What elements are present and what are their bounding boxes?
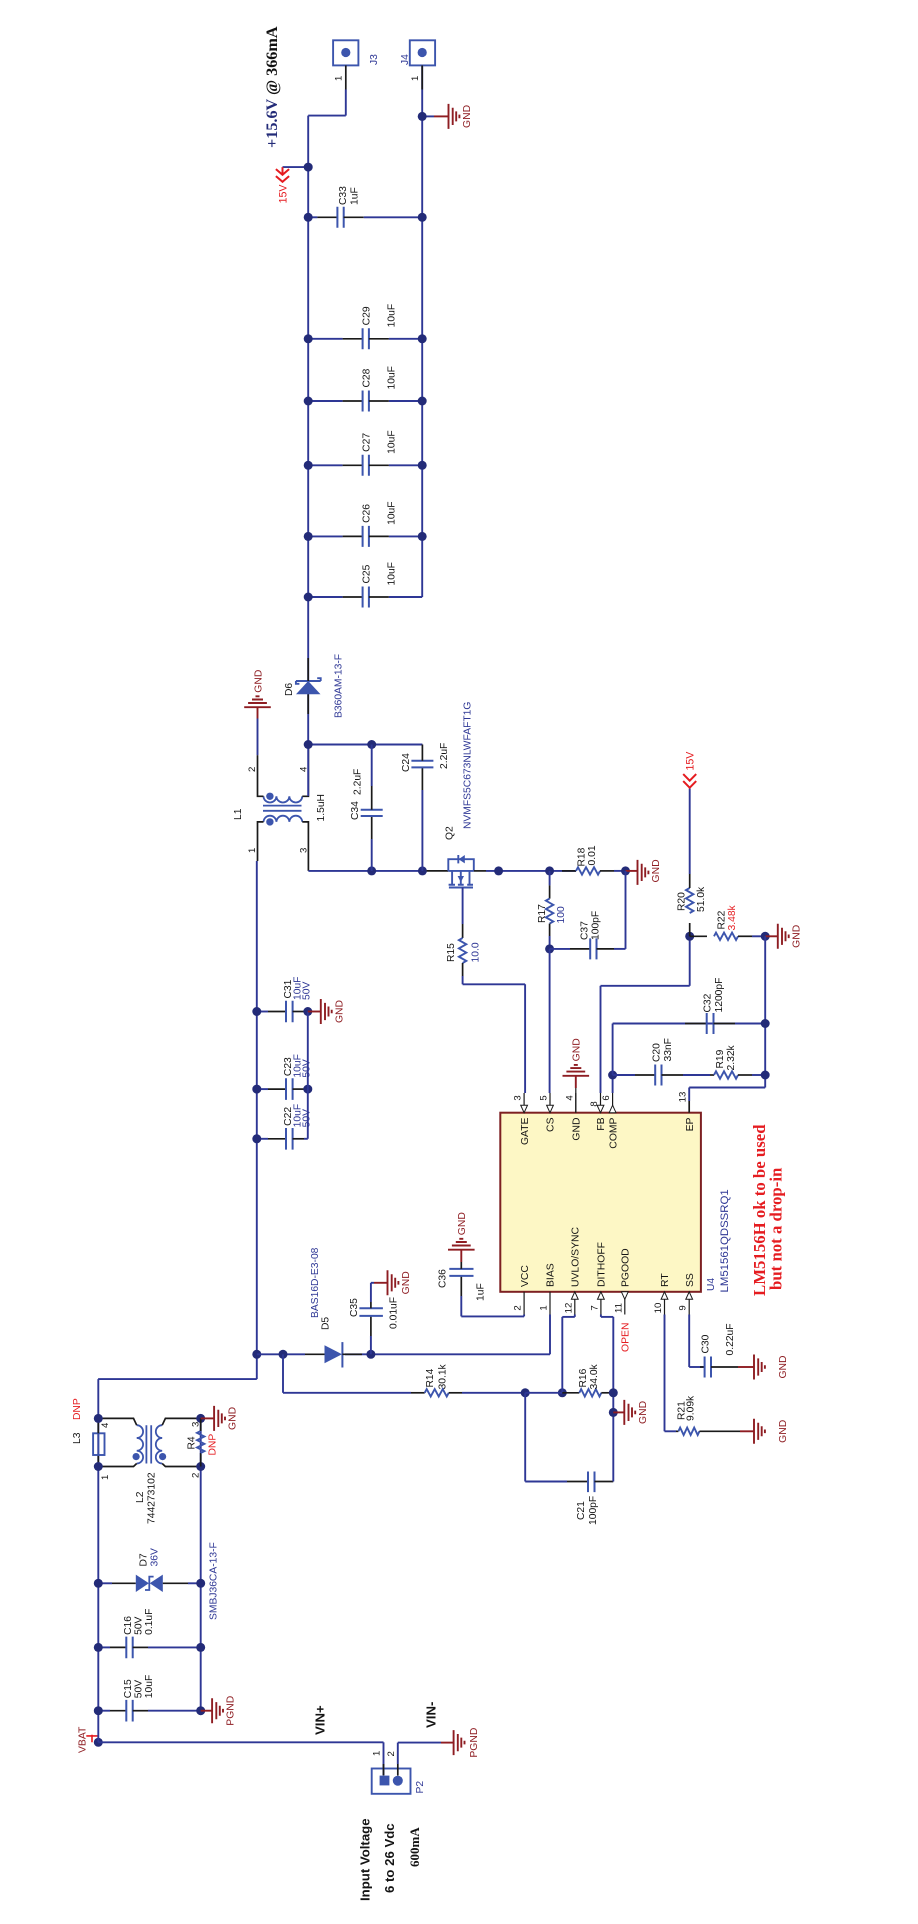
wire RT pin to R21	[664, 1315, 666, 1432]
wire UVLO pin	[561, 1317, 563, 1393]
junction dots C28	[304, 397, 313, 406]
ground symbol GND at C36 (sideways)	[448, 1212, 475, 1262]
resistor R18 0.01 (shunt, vertical)	[562, 867, 626, 874]
wire D5 top to VBAT	[257, 1353, 305, 1355]
svg-text:10uF: 10uF	[387, 562, 398, 585]
capacitor C26 (10uF output cap)	[308, 501, 422, 546]
svg-text:D7: D7	[139, 1553, 150, 1566]
svg-text:1: 1	[334, 76, 345, 81]
pin 9 SS (U4 left)	[678, 1273, 696, 1314]
svg-text:C36: C36	[438, 1269, 449, 1288]
node A junction dot (SW node on VOUT rail)	[304, 740, 313, 749]
pin 11 PGOOD (U4 left)	[613, 1248, 631, 1314]
svg-text:L2: L2	[135, 1491, 146, 1503]
svg-text:SS: SS	[685, 1273, 696, 1287]
svg-text:51.0k: 51.0k	[696, 886, 707, 912]
svg-text:GND: GND	[572, 1118, 583, 1141]
svg-text:EP: EP	[685, 1117, 696, 1131]
diode D7 SMBJ36CA-13-F (TVS, vertical)	[98, 1575, 200, 1592]
svg-text:1: 1	[372, 1751, 383, 1756]
svg-text:12: 12	[563, 1303, 574, 1314]
wire VBAT to R14 column	[282, 1354, 284, 1393]
svg-text:COMP: COMP	[608, 1117, 619, 1148]
svg-text:+15.6V @ 366mA: +15.6V @ 366mA	[263, 26, 281, 148]
svg-text:GATE: GATE	[520, 1117, 531, 1145]
wire SS pin to C30	[688, 1315, 690, 1368]
wire gate to IC GATE pin	[463, 983, 525, 985]
svg-text:GND: GND	[778, 1420, 789, 1443]
svg-text:744273102: 744273102	[147, 1472, 158, 1524]
svg-text:C21: C21	[576, 1501, 587, 1520]
pin 2 VCC (U4 left)	[513, 1265, 531, 1315]
svg-text:7: 7	[589, 1305, 600, 1310]
capacitor C32 1200pF (vertical, on x=900.5)	[685, 1013, 735, 1034]
resistor R17 100 (gate of CS filter, horizontal)	[546, 871, 553, 949]
svg-text:Q2: Q2	[445, 826, 456, 840]
svg-text:UVLO/SYNC: UVLO/SYNC	[571, 1226, 582, 1287]
svg-text:1: 1	[539, 1305, 550, 1310]
capacitor C27 (10uF output cap)	[308, 430, 422, 475]
svg-text:C32: C32	[703, 993, 714, 1012]
transistor Q2 NVMFS5C673NLWFAFT1G (N-MOSFET)	[427, 855, 486, 888]
svg-text:R20: R20	[677, 892, 688, 911]
ground symbol PGND at C15	[201, 1696, 237, 1726]
svg-text:R22: R22	[717, 910, 728, 929]
junction dot C24 left	[418, 866, 427, 875]
svg-text:50V: 50V	[134, 1680, 145, 1698]
svg-text:VIN+: VIN+	[313, 1705, 328, 1735]
svg-text:100pF: 100pF	[588, 1496, 599, 1525]
capacitor C21 100pF (parallel R16)	[525, 1393, 613, 1492]
junction dot R22 bottom	[761, 932, 770, 941]
resistor R16 34.0k (vertical)	[525, 1389, 613, 1396]
VOUT rail (+15.6V net)	[307, 116, 309, 796]
junction dots C33	[304, 213, 313, 222]
svg-text:R15: R15	[446, 943, 457, 962]
diode D5 BAS16D-E3-08 (vertical, pointing down)	[305, 1342, 362, 1367]
capacitor C37 100pF (vertical)	[550, 871, 626, 960]
svg-text:3.48k: 3.48k	[727, 904, 738, 930]
wire P2 pin 2 to PGND	[397, 1743, 399, 1764]
wire COMP/EP ground-side rail y=765	[764, 936, 766, 1087]
connector P2 (input)	[372, 1764, 411, 1794]
svg-text:2.2uF: 2.2uF	[439, 743, 450, 769]
connector J4 (output GND)	[410, 40, 435, 89]
svg-text:SMBJ36CA-13-F: SMBJ36CA-13-F	[209, 1542, 220, 1620]
junction dot C20/R19 rail	[761, 1071, 770, 1080]
svg-text:2.2uF: 2.2uF	[353, 769, 364, 795]
diode D6 B360AM-13-F (schottky, inline on VOUT rail)	[296, 658, 321, 714]
capacitor C25 (10uF output cap)	[308, 562, 422, 607]
svg-text:4: 4	[100, 1422, 111, 1428]
svg-text:10uF: 10uF	[387, 430, 398, 453]
svg-text:RT: RT	[660, 1273, 671, 1287]
ground symbol GND at L1 pin 2 (sideways)	[244, 670, 271, 719]
svg-text:C26: C26	[362, 504, 373, 523]
junction dots C25	[304, 593, 313, 602]
svg-text:D5: D5	[321, 1317, 332, 1330]
pin 5 CS (U4 right)	[539, 1093, 557, 1132]
svg-text:OPEN: OPEN	[621, 1323, 632, 1352]
svg-text:VCC: VCC	[520, 1265, 531, 1287]
svg-text:GND: GND	[778, 1355, 789, 1378]
capacitor C22 10uF 50V (input bypass)	[257, 1104, 313, 1150]
svg-text:GND: GND	[253, 670, 264, 693]
svg-text:10uF: 10uF	[387, 304, 398, 327]
svg-text:C34: C34	[350, 801, 361, 820]
svg-text:BIAS: BIAS	[546, 1263, 557, 1287]
wire CS node to IC pin 5	[549, 949, 551, 1093]
svg-text:1uF: 1uF	[476, 1283, 487, 1301]
svg-text:C27: C27	[362, 433, 373, 452]
op-amp U4 LM51561QDSSRQ1 controller (IC body)	[500, 1113, 701, 1292]
svg-text:PGND: PGND	[226, 1696, 237, 1726]
resistor R14 30.1k (vertical)	[411, 1389, 525, 1396]
svg-text:3: 3	[299, 848, 310, 853]
svg-text:R16: R16	[578, 1368, 589, 1387]
pin 7 DITHOFF (U4 left)	[589, 1242, 607, 1315]
svg-text:Input Voltage: Input Voltage	[358, 1818, 373, 1901]
wire R16 bottom rail / DITHOFF	[612, 1317, 614, 1413]
svg-text:C37: C37	[580, 921, 591, 940]
svg-text:1200pF: 1200pF	[714, 978, 725, 1013]
svg-text:PGND: PGND	[469, 1728, 480, 1758]
svg-text:R14: R14	[425, 1368, 436, 1387]
wire VBAT riser from filter	[98, 1378, 257, 1380]
svg-text:0.01: 0.01	[587, 845, 598, 865]
junction dot C37/CS node	[545, 944, 554, 953]
wire input bottom rail (PGND side)	[200, 1418, 202, 1710]
svg-text:J4: J4	[400, 54, 411, 65]
capacitor C23 10uF 50V (input bypass)	[257, 1054, 313, 1100]
svg-text:C29: C29	[362, 306, 373, 325]
wire L1 pin3 down to Q2 drain (x=1053.1)	[308, 870, 371, 872]
capacitor C28 (10uF output cap)	[308, 366, 422, 411]
svg-text:R19: R19	[715, 1049, 726, 1068]
inductor L1 coupled 1.5uH	[258, 745, 309, 871]
svg-text:P2: P2	[415, 1781, 426, 1794]
svg-text:36V: 36V	[150, 1548, 161, 1566]
svg-text:C24: C24	[401, 753, 412, 772]
svg-text:GND: GND	[401, 1271, 412, 1294]
ground symbol GND at L2 pin 3	[201, 1406, 239, 1431]
junction dots C16	[94, 1643, 103, 1652]
svg-text:10: 10	[653, 1303, 664, 1314]
junction dot C23 top	[252, 1085, 261, 1094]
svg-text:50V: 50V	[302, 982, 313, 1000]
svg-text:GND: GND	[334, 1000, 345, 1023]
junction dot C23 bottom	[303, 1085, 312, 1094]
svg-text:C20: C20	[652, 1043, 663, 1062]
ground symbol GND at R18	[626, 859, 663, 885]
svg-text:B360AM-13-F: B360AM-13-F	[334, 654, 345, 718]
junction dot R14 top branch	[279, 1350, 288, 1359]
svg-text:6: 6	[601, 1095, 612, 1100]
svg-text:11: 11	[613, 1303, 624, 1313]
junction dot R18 bottom / GND node	[621, 866, 630, 875]
svg-text:LM51561QDSSRQ1: LM51561QDSSRQ1	[719, 1189, 731, 1292]
svg-text:600mA: 600mA	[407, 1827, 422, 1867]
junction dots C27	[304, 461, 313, 470]
capacitor C29 (10uF output cap)	[308, 304, 422, 349]
junction dot GND tap (R16/C21)	[609, 1408, 618, 1417]
ground symbol GND at R21	[740, 1419, 789, 1444]
svg-text:C28: C28	[362, 368, 373, 387]
wire BIAS pin to D5 cathode	[549, 1315, 551, 1355]
wire node A down to C34/C24 (x=1179.5)	[308, 744, 422, 746]
wire local gnd interconnect (C22-C31)	[307, 1012, 309, 1139]
svg-text:15V: 15V	[278, 184, 290, 204]
svg-text:2: 2	[513, 1305, 524, 1310]
svg-text:CS: CS	[546, 1117, 557, 1132]
svg-text:10.0: 10.0	[471, 942, 482, 962]
svg-text:1.5uH: 1.5uH	[316, 794, 327, 821]
svg-text:34.0k: 34.0k	[589, 1363, 600, 1389]
junction dot C21 branch	[521, 1388, 530, 1397]
svg-text:GND: GND	[572, 1038, 583, 1061]
svg-text:FB: FB	[596, 1117, 607, 1130]
svg-text:10uF: 10uF	[387, 501, 398, 524]
pin 4 GND (U4 right)	[564, 1093, 582, 1141]
svg-text:6 to 26 Vdc: 6 to 26 Vdc	[382, 1823, 397, 1893]
pin 10 RT (U4 left)	[653, 1273, 671, 1315]
wire Q2 source down	[486, 870, 576, 872]
junction dot D5 anode (VBAT)	[252, 1350, 261, 1359]
svg-text:D6: D6	[284, 683, 295, 696]
svg-text:R17: R17	[537, 904, 548, 923]
svg-text:DNP: DNP	[208, 1434, 219, 1456]
svg-text:R18: R18	[577, 847, 588, 866]
resistor R4 DNP (across lower winding)	[197, 1418, 204, 1466]
junction dot source node 1	[494, 866, 503, 875]
junction dots C26	[304, 532, 313, 541]
svg-text:GND: GND	[638, 1401, 649, 1424]
capacitor C20 33nF (COMP series, vertical x=849)	[613, 1065, 710, 1086]
svg-text:L1: L1	[233, 808, 244, 820]
pin 1 BIAS (U4 left)	[539, 1263, 557, 1314]
resistor R15 10.0 (gate, horizontal)	[459, 888, 466, 985]
svg-text:2.32k: 2.32k	[726, 1044, 737, 1070]
junction dot C31 bottom	[303, 1007, 312, 1016]
svg-text:GND: GND	[651, 859, 662, 882]
svg-text:J3: J3	[369, 54, 380, 65]
svg-text:9: 9	[678, 1305, 689, 1310]
svg-text:10uF: 10uF	[144, 1675, 155, 1698]
svg-text:DITHOFF: DITHOFF	[597, 1242, 608, 1287]
svg-text:1: 1	[410, 76, 421, 81]
pin 6 COMP (U4 right)	[601, 1093, 619, 1149]
svg-text:C30: C30	[701, 1334, 712, 1353]
capacitor C16 (input)	[98, 1609, 200, 1659]
junction dot C35 tap	[366, 1350, 375, 1359]
svg-text:PGOOD: PGOOD	[621, 1248, 632, 1287]
capacitor C35 0.01uF (horizontal)	[359, 1283, 383, 1355]
svg-text:GND: GND	[457, 1212, 468, 1235]
junction dot FB node (R20/R22)	[685, 932, 694, 941]
svg-text:0.01uF: 0.01uF	[389, 1297, 400, 1329]
resistor R22 3.48k (vertical)	[690, 933, 766, 940]
ground symbol GND at R22	[765, 924, 802, 949]
svg-text:R4: R4	[187, 1436, 198, 1449]
svg-text:NVMFS5C673NLWFAFT1G: NVMFS5C673NLWFAFT1G	[463, 702, 474, 829]
resistor R19 2.32k (COMP series, vertical)	[710, 1071, 765, 1078]
pin 12 UVLO/SYNC (U4 left)	[563, 1226, 581, 1314]
svg-text:13: 13	[678, 1092, 689, 1103]
svg-text:GND: GND	[228, 1407, 239, 1430]
connector J3 (output +)	[308, 40, 358, 115]
wire COMP node to C32 branch	[612, 1024, 614, 1076]
ground symbol GND at R16/C21	[613, 1400, 649, 1425]
svg-text:0.22uF: 0.22uF	[725, 1323, 736, 1355]
junction dot C34 right	[367, 740, 376, 749]
svg-text:30.1k: 30.1k	[438, 1363, 449, 1389]
ground symbol GND at C30	[738, 1355, 789, 1380]
junction dot C32 bottom	[761, 1019, 770, 1028]
junction dot 15V on rail	[304, 163, 313, 172]
resistor R21 9.09k (vertical)	[676, 1428, 740, 1435]
svg-text:2: 2	[191, 1473, 202, 1478]
capacitor C36 1uF (VCC bypass, horizontal)	[449, 1262, 473, 1316]
svg-text:VIN-: VIN-	[424, 1702, 439, 1728]
inductor L2 744273102 (common-mode choke)	[98, 1418, 200, 1466]
junction dot C34 left	[367, 866, 376, 875]
VBAT net marker	[86, 1735, 98, 1743]
junction dot VBAT corner	[94, 1738, 103, 1747]
svg-text:DNP: DNP	[72, 1398, 83, 1420]
svg-text:50V: 50V	[134, 1616, 145, 1634]
svg-text:33nF: 33nF	[663, 1038, 674, 1061]
svg-text:5: 5	[539, 1095, 550, 1100]
junction dot C31 top	[252, 1007, 261, 1016]
pin 3 GATE (U4 right)	[513, 1093, 531, 1145]
power symbol 15V (top, on VOUT rail)	[276, 167, 308, 203]
svg-text:100: 100	[556, 906, 567, 923]
svg-text:1: 1	[100, 1475, 111, 1480]
capacitor C30 0.22uF (SS, vertical)	[700, 1357, 738, 1378]
svg-text:3: 3	[513, 1095, 524, 1100]
svg-text:4: 4	[564, 1095, 575, 1101]
svg-text:C35: C35	[349, 1298, 360, 1317]
pin 8 FB (U4 right)	[589, 1093, 607, 1131]
ground symbol PGND at P2	[441, 1728, 480, 1758]
svg-text:L3: L3	[72, 1432, 83, 1444]
junction dots C15	[94, 1706, 103, 1715]
ground symbol GND at U4 pin 4 (sideways)	[563, 1038, 590, 1112]
junction dot C22 top	[252, 1134, 261, 1143]
svg-text:but not a drop-in: but not a drop-in	[767, 1167, 786, 1290]
svg-text:VBAT: VBAT	[78, 1726, 89, 1753]
svg-text:1uF: 1uF	[350, 187, 361, 205]
capacitor C31 10uF 50V (input bypass)	[257, 977, 313, 1023]
svg-text:C25: C25	[362, 564, 373, 583]
EP stub wire	[688, 1112, 690, 1114]
GND rail (output)	[421, 65, 423, 597]
wire EP pin to rail	[688, 1101, 690, 1113]
svg-text:BAS16D-E3-08: BAS16D-E3-08	[310, 1247, 321, 1318]
wire L1 pin2 to GND	[257, 719, 259, 756]
svg-text:C16: C16	[123, 1616, 134, 1635]
resistor R20 51.0k (horizontal)	[686, 874, 693, 936]
ground symbol GND at C31	[308, 999, 346, 1024]
svg-text:C15: C15	[123, 1679, 134, 1698]
junction dot R16 bottom	[609, 1388, 618, 1397]
junction dot GND/J4	[418, 112, 427, 121]
capacitor C34 2.2uF (SEPIC coupling, inline horizontal)	[361, 745, 383, 871]
junction dots C29	[304, 334, 313, 343]
power symbol 15V (FB divider top)	[683, 751, 697, 874]
capacitor C15 (input)	[98, 1675, 200, 1722]
wire FB pin to divider	[600, 986, 602, 1093]
svg-text:15V: 15V	[685, 751, 697, 771]
capacitor C24 2.2uF (inline horizontal)	[411, 745, 433, 871]
capacitor C33 1uF	[308, 186, 422, 228]
svg-text:GND: GND	[462, 105, 473, 128]
svg-text:8: 8	[589, 1101, 600, 1106]
svg-text:1: 1	[247, 848, 258, 853]
junction dot UVLO tap	[558, 1388, 567, 1397]
wire VBAT net to L1 pin 1	[256, 861, 258, 1379]
svg-text:100pF: 100pF	[591, 911, 602, 940]
svg-text:2: 2	[247, 767, 258, 772]
ground symbol GND at J4	[422, 104, 473, 129]
junction dot source node 2 (CS/R17 tap)	[545, 866, 554, 875]
svg-text:0.1uF: 0.1uF	[144, 1609, 155, 1635]
inductor L3 (DNP ferrite bead across L2)	[93, 1418, 104, 1466]
junction dots D7	[94, 1579, 103, 1588]
svg-text:GND: GND	[791, 925, 802, 948]
wire input top rail (VBAT)	[97, 1379, 99, 1742]
svg-text:U4: U4	[706, 1278, 717, 1291]
pin 13 EP (U4 right)	[678, 1092, 696, 1132]
svg-text:10uF: 10uF	[387, 366, 398, 389]
svg-text:9.09k: 9.09k	[686, 1395, 697, 1421]
junction dots L2/L3	[94, 1462, 103, 1471]
svg-text:2: 2	[386, 1751, 397, 1756]
ground symbol GND at C35	[371, 1270, 412, 1295]
svg-text:C33: C33	[338, 186, 349, 205]
wire VCC pin to C36	[523, 1315, 525, 1317]
wire VBAT down to P2 pin 1	[98, 1741, 383, 1743]
wire COMP pin	[612, 1075, 614, 1093]
junction dot COMP node	[608, 1071, 617, 1080]
